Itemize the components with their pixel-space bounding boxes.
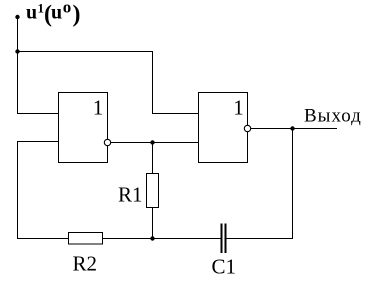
gate D1 inversion bubble bbox=[104, 139, 110, 145]
svg-text:R1: R1 bbox=[118, 183, 143, 207]
svg-text:Выход: Выход bbox=[304, 106, 362, 127]
svg-text:u: u bbox=[26, 2, 37, 24]
node A junction dot bbox=[150, 140, 154, 144]
input terminal node u1(u0) bbox=[15, 15, 19, 19]
wire: top rail from junction right bbox=[17, 51, 153, 53]
svg-text:R2: R2 bbox=[73, 252, 98, 276]
wire: C1 to right riser bbox=[227, 238, 294, 240]
wire: node A down to resistor R1 bbox=[152, 143, 154, 174]
wire: gate D1 output line to gate D2 lower input bbox=[111, 142, 199, 144]
wire: into gate D2 upper input bbox=[152, 113, 199, 115]
node B junction dot bbox=[150, 236, 154, 240]
capacitor C1 left plate bbox=[221, 224, 223, 254]
junction dot at (17,51) bbox=[15, 49, 19, 53]
wire: R2 to node B bbox=[103, 238, 222, 240]
gate D2 inversion bubble bbox=[244, 125, 250, 131]
svg-text:1: 1 bbox=[233, 96, 244, 120]
wire: top rail down toward gate D2 bbox=[152, 51, 154, 114]
wire: bottom rail to resistor R2 bbox=[17, 238, 69, 240]
wire: into gate D1 upper input bbox=[17, 113, 59, 115]
gate D2 box bbox=[199, 93, 248, 163]
wire: R1 down to node B bbox=[152, 208, 154, 240]
resistor R1 body bbox=[147, 174, 159, 208]
label u1(u0) bbox=[26, 0, 81, 28]
gate D1 box bbox=[59, 93, 108, 163]
svg-text:): ) bbox=[73, 2, 81, 28]
wire: feedback left vertical down to bottom rail bbox=[17, 142, 19, 240]
wire: output node down right side bbox=[292, 129, 294, 240]
capacitor C1 right plate bbox=[224, 224, 226, 254]
resistor R2 body bbox=[69, 233, 103, 245]
wire: gate D2 output line to Vyhod bbox=[251, 128, 338, 130]
wire: gate D1 lower input from feedback bbox=[17, 141, 59, 143]
svg-text:o: o bbox=[63, 0, 71, 16]
svg-text:1: 1 bbox=[93, 96, 104, 120]
wire: input terminal down to gate D1 upper input bbox=[17, 17, 19, 114]
svg-text:C1: C1 bbox=[212, 255, 237, 279]
svg-text:u: u bbox=[51, 2, 62, 24]
output node junction dot bbox=[290, 126, 294, 130]
